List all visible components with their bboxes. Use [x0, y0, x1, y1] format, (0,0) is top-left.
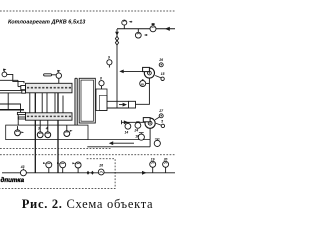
bubble 21: [46, 162, 52, 168]
boiler tubes: [29, 93, 31, 113]
burner b3: [45, 132, 51, 138]
bubble 23: [75, 162, 81, 168]
node bubble 9: [107, 60, 112, 65]
bubble 22: [60, 162, 66, 168]
bubble 15: [161, 124, 164, 127]
fan F1 smoke exhauster: [144, 68, 154, 78]
air duct: [88, 139, 150, 141]
wire F2 outlet: [149, 128, 151, 139]
pump P1: [20, 170, 26, 176]
lower drum: [26, 113, 73, 120]
wire feed lines lower: [0, 104, 21, 112]
valve bubble 24: [135, 123, 141, 129]
svg-text:дпитка: дпитка: [1, 177, 25, 184]
burner b4: [64, 131, 70, 137]
svg-text:8: 8: [100, 77, 102, 81]
bubble 27: [159, 114, 163, 118]
svg-text:19: 19: [151, 158, 155, 162]
valve diamonds on feed pipe: [87, 171, 90, 175]
svg-text:15: 15: [161, 72, 165, 76]
level sensor bubble: [2, 72, 7, 77]
bubble 8: [99, 81, 104, 86]
bubble 25: [161, 77, 164, 80]
rear tubes: [74, 78, 76, 125]
wire connector left: [7, 93, 9, 110]
svg-text:24: 24: [134, 129, 139, 133]
tag mark T2: [144, 34, 147, 36]
svg-text:Котлоагрегат ДРКВ 6,5х13: Котлоагрегат ДРКВ 6,5х13: [8, 20, 85, 26]
wire sensor to drum: [7, 74, 24, 83]
gas duct boxes: [96, 89, 107, 111]
svg-text:20: 20: [163, 158, 168, 162]
downcomer A: [34, 93, 36, 173]
furnace box: [6, 125, 88, 140]
control valve on steam header: [150, 26, 156, 32]
instrument bubble T1: [122, 20, 127, 25]
wire F1 suction: [136, 78, 150, 104]
wire F1 outlet: [123, 70, 143, 72]
svg-text:3: 3: [38, 127, 40, 131]
svg-text:ру: ру: [140, 82, 145, 86]
arrow steam left: [165, 27, 170, 31]
wire F2 intake: [121, 120, 123, 124]
svg-text:16: 16: [135, 134, 139, 138]
drum stub upper: [21, 86, 26, 90]
svg-text:43: 43: [20, 165, 25, 169]
drum stub lower: [17, 112, 25, 114]
svg-text:9: 9: [108, 56, 110, 60]
bubble 20: [163, 161, 169, 167]
wire steam downcomer: [116, 29, 118, 108]
tag mark T1: [129, 21, 132, 23]
wire steam header: [117, 28, 175, 30]
boundary dashed top: [0, 10, 175, 12]
damper box: [129, 101, 136, 108]
arrow gas flow: [123, 103, 127, 107]
svg-text:14: 14: [125, 131, 129, 135]
orifice pair: [115, 36, 118, 41]
valve bubble 14: [125, 123, 131, 129]
instrument bubble T2: [135, 32, 141, 38]
downcomer B: [57, 93, 59, 173]
svg-text:5: 5: [161, 120, 163, 124]
motor valve M: [98, 169, 104, 175]
caption: [0, 197, 175, 212]
svg-text:26: 26: [98, 164, 103, 168]
svg-text:26: 26: [158, 58, 163, 62]
gas duct lines: [107, 100, 129, 102]
feed water pipe: [2, 172, 175, 174]
bubble PY: [140, 81, 146, 87]
valve V4: [154, 140, 160, 146]
boundary dashed mid B: [0, 154, 175, 156]
arrow air flow: [109, 141, 113, 145]
safety valve on drum: [44, 74, 52, 76]
valve V3 on air duct: [138, 134, 144, 140]
burner b1: [15, 130, 21, 136]
fan F2 blower: [145, 118, 155, 128]
svg-text:27: 27: [158, 109, 163, 113]
bubble 26: [159, 63, 163, 67]
wire level lines left: [0, 79, 18, 81]
arrow feed flow: [142, 171, 147, 175]
bubble 19: [150, 161, 156, 167]
arrow down: [115, 32, 119, 36]
economizer tall box: [79, 78, 95, 123]
boundary dashed mid A: [0, 147, 112, 149]
burner b2: [37, 132, 43, 138]
dashed box feeder: [0, 159, 115, 189]
upper drum: [26, 83, 73, 93]
svg-text:4: 4: [45, 127, 48, 131]
